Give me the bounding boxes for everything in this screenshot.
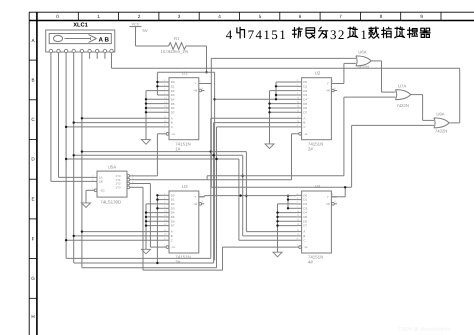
svg-text:~W: ~W: [193, 89, 198, 93]
wire U4 high cluster vertical: [287, 196, 289, 209]
wire SELC mid run: [66, 158, 239, 160]
svg-text:5: 5: [259, 14, 262, 19]
wire XLC1 pin2 to U5A 1A: [58, 53, 60, 178]
svg-text:Y: Y: [327, 195, 329, 199]
U1 strobe pin ~G: [164, 133, 167, 135]
junction U4 high top: [287, 195, 289, 197]
wire SELA riser to U2 pin A: [210, 118, 212, 258]
svg-text:E: E: [31, 197, 34, 202]
wire U1 D0 feed: [157, 81, 163, 83]
svg-text:0: 0: [56, 14, 59, 19]
svg-text:U2: U2: [315, 71, 321, 76]
svg-text:G: G: [31, 276, 35, 281]
svg-text:7432N: 7432N: [357, 65, 369, 70]
svg-text:U3: U3: [182, 184, 188, 189]
wire SELC descender: [238, 159, 240, 240]
wire U2 Y to U6A input2: [331, 83, 344, 85]
svg-text:3: 3: [178, 14, 181, 19]
net SELC wire vertical from XLC1 pin3: [65, 53, 67, 259]
svg-text:U5A: U5A: [108, 164, 117, 169]
wire U1 Y to U6A input1: [199, 83, 212, 85]
wire U1 data gnd feed: [146, 111, 164, 113]
wire 1Y1 to U2 strobe: [131, 179, 291, 181]
svg-text:9: 9: [420, 14, 423, 19]
ground U3 data: [142, 249, 151, 254]
ground U1 data: [142, 140, 151, 145]
wire U5A enable to ground: [86, 189, 92, 191]
wire 1Y3 to U4 strobe: [131, 186, 143, 188]
svg-text:D7: D7: [171, 224, 175, 228]
svg-text:C: C: [303, 238, 305, 242]
svg-text:U7A: U7A: [398, 83, 406, 88]
wire U3 Y to U4 D0 row: [199, 196, 205, 198]
wire U2 data gnd feed: [270, 107, 297, 109]
wire U3 data gnd feed: [146, 225, 164, 227]
U4 strobe pin ~G: [296, 246, 299, 248]
wire U3 data gnd feed: [146, 212, 164, 214]
svg-text:A B: A B: [99, 36, 110, 43]
or-gate U8A 7432N: [434, 118, 449, 128]
svg-text:~1G: ~1G: [99, 188, 105, 192]
svg-text:CSDN @ dianzishejishi: CSDN @ dianzishejishi: [398, 327, 450, 333]
svg-text:F: F: [32, 237, 35, 242]
wire SELA lower left to U3 pin A: [82, 231, 164, 233]
U5A output pin 1Y3: [127, 186, 130, 189]
wire U3 D3 feed: [157, 207, 163, 209]
top ruler ticks: [77, 12, 79, 20]
svg-text:C: C: [171, 125, 173, 129]
svg-text:74LS139D: 74LS139D: [100, 200, 121, 205]
svg-text:D7: D7: [303, 110, 307, 114]
wire U3 D2 feed: [146, 203, 164, 205]
wire XLC1 pin1 to U5A 1B: [50, 53, 52, 182]
wire U1 D1 feed: [157, 85, 163, 87]
wire SELA bottom run: [66, 257, 211, 259]
wire 1Y2 to U3 strobe: [131, 183, 150, 185]
wire pullup distribution trunk H: [157, 71, 214, 73]
svg-text:C: C: [171, 238, 173, 242]
wire lower Y bus: [211, 186, 351, 188]
svg-text:1: 1: [97, 14, 100, 19]
wire U2 D0 feed: [276, 81, 296, 83]
wire SELB lower left to U3 pin B: [74, 235, 164, 237]
svg-text:7432N: 7432N: [435, 128, 447, 133]
wire U4 data gnd feed: [278, 216, 297, 218]
74151 multiplexer U2: [302, 78, 332, 140]
svg-text:6: 6: [299, 14, 302, 19]
wire SELC bottom run: [82, 267, 217, 269]
74151 multiplexer U1: [169, 78, 199, 140]
svg-text:VCC: VCC: [131, 23, 139, 27]
sheet outer border: [29, 11, 474, 13]
wire U2 data gnd feed: [270, 103, 297, 105]
wire R1 to pullup trunk: [186, 45, 207, 47]
wire U2 D3 feed: [276, 94, 296, 96]
wire U1 gnd cluster vertical: [145, 91, 147, 140]
wire U2 high cluster vertical: [275, 82, 277, 99]
74151 multiplexer U3: [169, 191, 199, 253]
wire U1 data gnd feed: [146, 98, 164, 100]
wire SELC lower left to U3 pin C: [66, 239, 163, 241]
wire U2 data gnd feed: [270, 111, 297, 113]
wire SELB to U1 pin B: [74, 122, 164, 124]
wire SELA to U4 pin A: [246, 231, 296, 233]
wire U4 data gnd feed: [278, 212, 297, 214]
svg-text:5V: 5V: [143, 28, 148, 33]
wire U3 D1 feed: [157, 199, 163, 201]
svg-text:D7: D7: [303, 224, 307, 228]
wire U1 data gnd feed: [146, 103, 164, 105]
ground U2 data: [265, 144, 274, 149]
wire SELC to U4 pin C: [239, 239, 296, 241]
junction U2 high-trunk: [275, 98, 277, 100]
U3 strobe pin ~G: [164, 246, 167, 248]
wire pullup trunk vertical: [214, 72, 216, 260]
wire SELB to U4 pin B: [243, 235, 296, 237]
XLC1 pins 6 7 8 stubs: [89, 53, 91, 59]
svg-text:7432N: 7432N: [397, 103, 409, 108]
wire crossover to U7A input2: [207, 175, 344, 177]
wire U2 D4 feed: [215, 98, 297, 100]
decoder 74LS139 U5A: [97, 171, 127, 197]
ground U4 data: [273, 252, 282, 257]
wire U3 D0 feed: [157, 194, 163, 196]
svg-text:2: 2: [138, 14, 141, 19]
svg-text:D7: D7: [171, 110, 175, 114]
junction SELA crossing dots: [242, 175, 244, 177]
wire U6A out to U7A input1: [371, 60, 381, 62]
wire U2 D2 feed: [270, 90, 297, 92]
svg-text:8: 8: [380, 14, 383, 19]
wire U1 data gnd feed: [146, 107, 164, 109]
svg-text:Y: Y: [194, 195, 196, 199]
svg-text:1: 1: [360, 27, 368, 42]
wire U4 data gnd feed: [278, 225, 297, 227]
wire SELB riser to U2 pin B: [213, 123, 215, 263]
svg-text:3#: 3#: [175, 260, 180, 265]
left ruler ticks: [29, 59, 37, 61]
ground U5A enable: [82, 203, 91, 208]
svg-text:1Y3: 1Y3: [116, 185, 122, 189]
wire U3 high cluster vertical: [156, 195, 158, 263]
wire U4 D1 feed: [288, 199, 296, 201]
or-gate U7A 7432N: [396, 90, 411, 100]
svg-text:R1: R1: [174, 36, 180, 41]
wire U1 D3 feed: [157, 94, 163, 96]
svg-text:Y: Y: [194, 82, 196, 86]
svg-text:U4: U4: [315, 184, 321, 189]
U5A output pin 1Y0: [127, 175, 130, 178]
svg-text:H: H: [31, 314, 34, 319]
svg-text:~W: ~W: [325, 202, 330, 206]
wire SELC riser to U2 pin C: [216, 127, 218, 268]
svg-text:1#: 1#: [175, 146, 180, 151]
wire U4 data gnd feed: [278, 220, 297, 222]
wire 1Y0 to U1 strobe: [131, 175, 157, 177]
wire U2 gnd cluster vertical: [269, 91, 271, 144]
wire U4 D3 feed: [288, 207, 296, 209]
net SELA wire vertical from XLC1 pin5: [81, 53, 83, 268]
wire SELC to U1 pin C: [66, 126, 163, 128]
wire U1 D2 feed: [146, 90, 164, 92]
wire U1 high cluster vertical: [156, 72, 158, 95]
wire U4 D2 feed: [278, 203, 297, 205]
sheet inner border: [29, 20, 474, 22]
svg-text:XLC1: XLC1: [73, 22, 88, 28]
wire U3 data gnd feed: [146, 216, 164, 218]
net SELB wire vertical from XLC1 pin4: [73, 53, 75, 264]
wire SELB descender: [242, 155, 244, 236]
junction U3Y row: [239, 194, 241, 196]
svg-text:~W: ~W: [325, 89, 330, 93]
svg-text:U1: U1: [182, 71, 188, 76]
svg-text:U6A: U6A: [358, 50, 366, 55]
svg-text:4#: 4#: [308, 260, 313, 265]
svg-text:U8A: U8A: [436, 112, 444, 117]
junction R1-trunk: [205, 71, 207, 73]
wire SELA descender: [245, 152, 247, 232]
U5A output pin 1Y2: [127, 182, 130, 185]
74151 multiplexer U4: [302, 191, 332, 253]
svg-text:7: 7: [339, 14, 342, 19]
svg-text:B: B: [31, 78, 34, 83]
wire U4 gnd cluster vertical: [277, 204, 279, 252]
svg-text:4: 4: [226, 27, 234, 42]
U3 output pins Y W: [199, 196, 205, 198]
svg-text:C: C: [303, 125, 305, 129]
or-gate U6A 7432N: [356, 56, 371, 66]
wire U3 data gnd feed: [146, 220, 164, 222]
wire U8A output to net AB: [449, 122, 459, 124]
svg-text:Y: Y: [327, 82, 329, 86]
wire SELA mid run: [82, 151, 247, 153]
wire U3 gnd cluster vertical: [145, 204, 147, 249]
U2 output pins Y W: [331, 83, 337, 85]
junction trunk-U2 D4 feed: [213, 98, 215, 100]
U4 output pins Y W: [331, 196, 337, 198]
U5A enable pin ~1G: [92, 189, 95, 191]
U5A output pin 1Y1: [127, 178, 130, 181]
svg-text:2#: 2#: [308, 146, 313, 151]
wire U4 Y to U8A input2: [331, 196, 345, 198]
wire XLC1 pin9 to U8A output - net AB out: [111, 53, 113, 69]
svg-text:1B: 1B: [99, 180, 103, 184]
U1 output pins Y W: [199, 83, 205, 85]
XLC1 pins: [49, 49, 52, 52]
svg-text:~W: ~W: [193, 202, 198, 206]
wire SELB mid run: [74, 154, 243, 156]
svg-text:74151: 74151: [248, 27, 288, 42]
svg-text:32: 32: [330, 27, 346, 42]
wire SELA to U1 pin A: [82, 117, 164, 119]
wire SELB bottom run: [74, 262, 214, 264]
wire U7A out to U8A input1: [411, 94, 423, 96]
svg-text:4: 4: [218, 14, 221, 19]
U2 strobe pin ~G: [296, 133, 299, 135]
wire U2 D1 feed: [276, 85, 296, 87]
